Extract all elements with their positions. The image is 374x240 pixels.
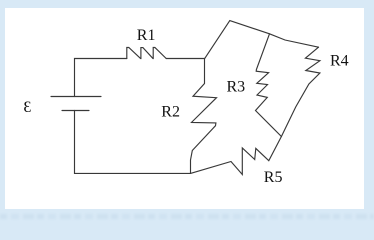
svg-text:R5: R5 [264, 169, 283, 186]
svg-text:R4: R4 [330, 52, 349, 69]
svg-text:Ɛ: Ɛ [23, 99, 31, 116]
svg-text:R1: R1 [137, 27, 156, 44]
svg-text:R3: R3 [227, 78, 246, 95]
svg-text:R2: R2 [161, 103, 180, 120]
